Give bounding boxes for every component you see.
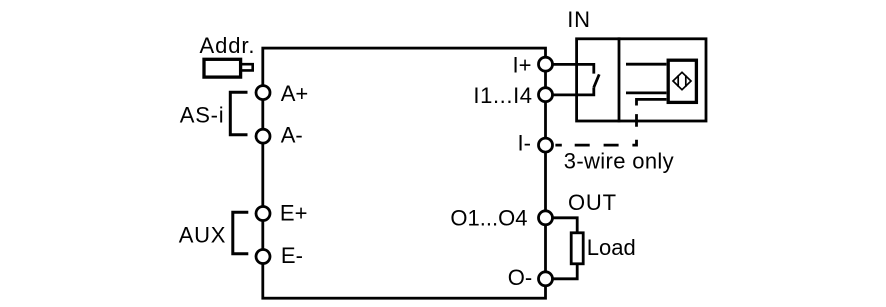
wire O1...O4 to load	[546, 218, 578, 232]
terminal A-	[256, 129, 270, 143]
switch contact blade	[594, 74, 599, 87]
sensor enclosure divider	[618, 37, 621, 122]
svg-text:A-: A-	[281, 122, 303, 147]
terminal I-	[539, 138, 553, 152]
proximity sensor body	[668, 60, 696, 102]
sensor wire plus	[626, 63, 666, 66]
wire I+ to switch	[546, 64, 594, 73]
sensor wire signal	[626, 92, 666, 95]
svg-text:E+: E+	[280, 201, 308, 226]
svg-text:Addr.: Addr.	[200, 33, 256, 58]
terminal A+	[256, 86, 270, 100]
svg-text:I+: I+	[513, 53, 532, 78]
svg-text:O-: O-	[508, 265, 532, 290]
svg-text:3-wire only: 3-wire only	[564, 149, 674, 174]
proximity sensor diamond	[673, 72, 691, 89]
wire load to O-	[546, 265, 578, 279]
svg-text:Load: Load	[587, 235, 636, 260]
svg-text:O1...O4: O1...O4	[450, 206, 527, 231]
bracket AUX	[233, 212, 249, 254]
svg-text:I1...I4: I1...I4	[473, 83, 532, 108]
sensor wire minus	[637, 99, 667, 105]
terminal I+	[539, 57, 553, 71]
addressing jack body	[204, 59, 241, 77]
svg-text:AUX: AUX	[179, 223, 227, 248]
load resistor	[571, 233, 583, 264]
wire I1...I4 to switch	[546, 87, 594, 95]
proximity sensor chord left	[677, 75, 679, 87]
terminal O-	[539, 272, 553, 286]
device outline rectangle	[263, 48, 546, 298]
terminal I1...I4	[539, 88, 553, 102]
proximity sensor chord right	[685, 75, 687, 87]
svg-text:E-: E-	[281, 243, 303, 268]
addressing jack nub	[242, 64, 253, 70]
terminal O1...O4	[539, 211, 553, 225]
svg-text:AS-i: AS-i	[180, 103, 225, 128]
terminal E-	[256, 250, 270, 264]
bracket AS-i	[230, 92, 247, 135]
svg-text:I-: I-	[518, 131, 531, 156]
svg-text:IN: IN	[567, 7, 591, 32]
terminal E+	[256, 207, 270, 221]
dashed 3-wire connection	[555, 114, 636, 145]
svg-text:A+: A+	[281, 81, 309, 106]
sensor enclosure box IN	[577, 39, 706, 121]
svg-text:OUT: OUT	[568, 190, 617, 215]
